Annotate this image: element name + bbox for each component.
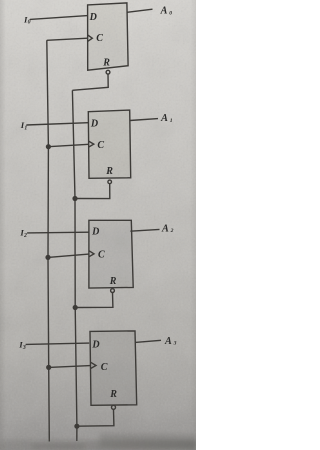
- cropped caption smudge at page bottom: [0, 434, 196, 450]
- svg-text:A: A: [164, 336, 172, 347]
- svg-text:D: D: [89, 12, 97, 23]
- wire clock stub U1.C: [47, 38, 88, 40]
- node clock tap U3: [46, 256, 50, 260]
- node clock tap U2: [47, 145, 51, 149]
- svg-text:R: R: [109, 389, 117, 400]
- wire input I1 to U2.D: [26, 123, 88, 125]
- svg-text:D: D: [90, 118, 98, 129]
- node label A1: [160, 113, 173, 124]
- wire input I3 to U4.D: [26, 343, 90, 344]
- svg-text:1: 1: [170, 118, 173, 124]
- flip-flop U3 reset bubble: [111, 289, 115, 293]
- svg-text:C: C: [98, 250, 105, 261]
- flip-flop U2 reset bubble: [108, 180, 112, 184]
- wire U4 reset drop: [77, 409, 114, 426]
- svg-text:3: 3: [173, 341, 177, 347]
- svg-text:0: 0: [169, 10, 172, 16]
- svg-text:D: D: [91, 227, 99, 238]
- node clear tap U3: [73, 306, 77, 310]
- flip-flop U2 body: [88, 110, 130, 178]
- svg-text:R: R: [105, 166, 113, 177]
- svg-text:1: 1: [24, 125, 27, 131]
- node clear tap U4: [75, 424, 79, 428]
- svg-text:3: 3: [22, 345, 26, 351]
- svg-text:C: C: [96, 33, 103, 44]
- wire input I2 to U3.D: [27, 231, 89, 234]
- svg-text:C: C: [101, 362, 108, 373]
- svg-text:D: D: [91, 340, 99, 351]
- node label I0: [23, 14, 31, 25]
- node clock tap U4: [47, 366, 51, 370]
- flip-flop U1 clock triangle: [88, 35, 93, 41]
- node label I2: [19, 228, 27, 239]
- wire output U4.Q to A3: [135, 340, 161, 342]
- flip-flop U2 clock triangle: [89, 141, 94, 147]
- flip-flop U3 clock triangle: [89, 251, 94, 257]
- wire U3 reset drop: [75, 293, 113, 308]
- svg-text:2: 2: [23, 233, 27, 239]
- svg-text:2: 2: [170, 228, 174, 234]
- wire input I0 to U1.D: [30, 16, 88, 20]
- flip-flop U1 body: [88, 3, 129, 70]
- flip-flop U4 clock triangle: [90, 362, 96, 368]
- wire output U2.Q to A1: [130, 119, 158, 121]
- flip-flop U4 body: [90, 331, 137, 405]
- node label A0: [160, 6, 173, 17]
- wire output U3.Q to A2: [130, 229, 159, 231]
- node label A2: [161, 223, 174, 234]
- svg-text:A: A: [160, 113, 168, 124]
- node label A3: [164, 336, 177, 347]
- wire U1 reset drop: [72, 74, 108, 90]
- flip-flop U1 reset bubble: [106, 70, 110, 74]
- wire U2 reset drop: [75, 184, 110, 199]
- wire clock stub U2.C: [48, 144, 88, 146]
- flip-flop U3 body: [89, 220, 133, 288]
- wire clear vertical line: [72, 90, 77, 441]
- svg-text:C: C: [97, 140, 104, 151]
- wire clock stub U4.C: [49, 366, 91, 368]
- svg-text:R: R: [102, 57, 110, 68]
- wire output U1.Q to A0: [127, 9, 153, 12]
- svg-text:A: A: [160, 6, 168, 17]
- node clear tap U2: [73, 197, 77, 201]
- svg-text:A: A: [161, 223, 169, 234]
- wire clock stub U3.C: [48, 254, 89, 257]
- flip-flop U4 reset bubble: [112, 405, 116, 409]
- node label I1: [20, 120, 28, 131]
- wire clock vertical line: [47, 40, 50, 441]
- svg-text:R: R: [109, 276, 117, 287]
- node label I3: [18, 340, 26, 351]
- svg-text:0: 0: [28, 20, 31, 26]
